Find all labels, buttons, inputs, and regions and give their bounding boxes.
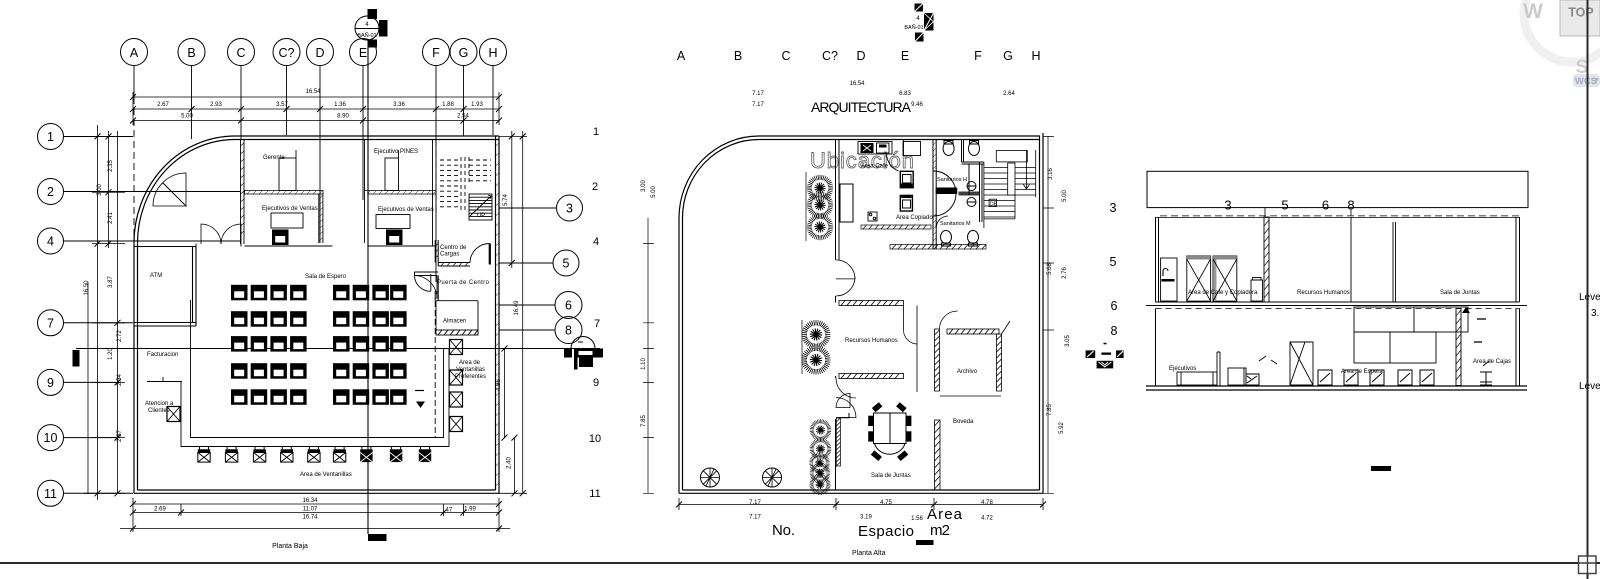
svg-text:16.74: 16.74: [302, 515, 318, 521]
svg-text:Area: Area: [927, 506, 963, 523]
svg-text:C?: C?: [279, 46, 295, 60]
svg-text:E: E: [901, 49, 909, 63]
svg-text:UP: UP: [477, 213, 485, 219]
svg-text:Ventanillas: Ventanillas: [456, 367, 485, 373]
svg-text:1.36: 1.36: [334, 102, 346, 108]
svg-text:16.50: 16.50: [84, 280, 90, 296]
svg-text:5.92: 5.92: [1059, 422, 1065, 434]
svg-text:Level: Level: [1579, 292, 1600, 303]
svg-text:Area de Ventanillas: Area de Ventanillas: [300, 472, 352, 478]
svg-text:ARQUITECTURA: ARQUITECTURA: [811, 99, 912, 115]
svg-text:7.17: 7.17: [749, 515, 761, 521]
svg-text:7.17: 7.17: [752, 102, 764, 108]
svg-text:2.67: 2.67: [157, 102, 169, 108]
svg-text:WCS: WCS: [1575, 76, 1597, 87]
svg-text:Area de Cafe y Copiadora: Area de Cafe y Copiadora: [1188, 290, 1258, 296]
svg-text:1.20: 1.20: [108, 348, 114, 360]
svg-text:Recursos Humanos: Recursos Humanos: [845, 338, 898, 344]
svg-text:3.36: 3.36: [393, 102, 405, 108]
svg-text:4.72: 4.72: [981, 516, 993, 522]
svg-text:Atencion a: Atencion a: [145, 401, 174, 407]
svg-text:C: C: [781, 49, 790, 63]
svg-text:Centro de: Centro de: [440, 245, 467, 251]
svg-text:Area Copiado: Area Copiado: [896, 215, 933, 221]
svg-text:3: 3: [566, 202, 573, 216]
svg-text:Planta Baja: Planta Baja: [272, 543, 308, 550]
svg-text:2.41: 2.41: [108, 212, 114, 224]
svg-text:Archivo: Archivo: [957, 369, 978, 375]
svg-text:4.75: 4.75: [880, 500, 892, 506]
svg-text:4.78: 4.78: [981, 500, 993, 506]
svg-text:1.93: 1.93: [471, 102, 483, 108]
svg-text:F: F: [974, 49, 982, 63]
svg-text:Espacio: Espacio: [858, 523, 914, 540]
svg-text:DB: DB: [990, 202, 998, 208]
svg-text:7.85: 7.85: [641, 415, 647, 427]
svg-text:2.93: 2.93: [210, 102, 222, 108]
svg-text:G: G: [459, 46, 469, 60]
svg-text:4: 4: [593, 236, 599, 248]
svg-text:C: C: [236, 46, 245, 60]
svg-text:ATM: ATM: [150, 273, 162, 279]
svg-text:Recursos Humanos: Recursos Humanos: [1297, 290, 1350, 296]
svg-text:Sala de Espero: Sala de Espero: [305, 274, 347, 280]
svg-text:2.35: 2.35: [108, 160, 114, 172]
svg-text:Boveda: Boveda: [953, 419, 974, 425]
svg-text:B: B: [734, 49, 742, 63]
svg-text:.47: .47: [444, 508, 453, 514]
svg-text:Sala de Juntas: Sala de Juntas: [1440, 290, 1480, 296]
svg-text:3.16: 3.16: [1048, 168, 1054, 180]
svg-text:7: 7: [47, 316, 54, 330]
svg-text:Sanitarios H: Sanitarios H: [937, 177, 967, 183]
svg-text:3.05: 3.05: [1065, 335, 1071, 347]
svg-text:11.07: 11.07: [303, 507, 318, 513]
svg-text:1.56: 1.56: [911, 516, 923, 522]
svg-text:5: 5: [563, 257, 570, 271]
svg-text:Level: Level: [1579, 381, 1600, 392]
svg-text:Ejecutivos: Ejecutivos: [1169, 366, 1196, 372]
svg-text:16.34: 16.34: [302, 498, 318, 504]
svg-text:A: A: [677, 49, 686, 63]
svg-text:5: 5: [1281, 198, 1288, 213]
svg-text:16.49: 16.49: [514, 300, 520, 316]
svg-text:Area de Cajas: Area de Cajas: [1473, 359, 1511, 365]
svg-text:3: 3: [1224, 198, 1231, 213]
svg-text:1: 1: [47, 130, 54, 144]
svg-text:Cargas: Cargas: [440, 252, 459, 258]
svg-text:2.72: 2.72: [117, 330, 123, 342]
svg-text:C?: C?: [822, 49, 838, 63]
svg-text:Sala de Juntas: Sala de Juntas: [871, 473, 911, 479]
svg-text:1: 1: [593, 126, 599, 138]
svg-text:16.54: 16.54: [305, 89, 321, 95]
svg-text:3.57: 3.57: [276, 102, 288, 108]
svg-text:D: D: [856, 49, 865, 63]
svg-text:Ejecutivos de Ventas: Ejecutivos de Ventas: [378, 207, 434, 213]
svg-text:3.87: 3.87: [108, 276, 114, 288]
svg-text:2.40: 2.40: [507, 457, 513, 469]
svg-text:5.00: 5.00: [181, 114, 193, 120]
svg-text:8.90: 8.90: [337, 114, 349, 120]
svg-text:9: 9: [593, 377, 599, 389]
svg-text:9.46: 9.46: [911, 102, 923, 108]
svg-text:Area de: Area de: [459, 360, 481, 366]
svg-text:TOP: TOP: [1568, 6, 1593, 20]
svg-text:Preferentes: Preferentes: [455, 374, 486, 380]
svg-text:10: 10: [44, 431, 58, 445]
svg-text:2.69: 2.69: [154, 507, 166, 513]
svg-text:7.17: 7.17: [749, 500, 761, 506]
svg-text:3: 3: [1110, 201, 1117, 215]
svg-text:B: B: [187, 46, 195, 60]
svg-text:5.00: 5.00: [1062, 190, 1068, 202]
svg-text:9: 9: [47, 376, 54, 390]
svg-text:10: 10: [589, 433, 601, 445]
svg-text:5: 5: [1110, 255, 1117, 269]
svg-text:8: 8: [1111, 324, 1118, 338]
svg-text:H: H: [1031, 49, 1040, 63]
svg-text:8: 8: [565, 324, 572, 338]
svg-text:2.54: 2.54: [117, 374, 123, 386]
svg-text:11: 11: [589, 488, 600, 500]
svg-text:F: F: [432, 46, 440, 60]
svg-text:8: 8: [1347, 198, 1354, 213]
svg-text:3.19: 3.19: [860, 515, 872, 521]
svg-text:Area Cafe: Area Cafe: [861, 164, 889, 170]
svg-text:Clientes: Clientes: [148, 408, 170, 414]
svg-text:16.54: 16.54: [849, 81, 865, 87]
svg-text:H: H: [488, 46, 497, 60]
svg-text:W: W: [1523, 0, 1543, 23]
svg-text:2.54: 2.54: [457, 114, 469, 120]
svg-text:7: 7: [594, 318, 600, 330]
svg-text:3.00: 3.00: [641, 180, 647, 192]
svg-text:7.17: 7.17: [752, 91, 764, 97]
svg-text:6: 6: [565, 299, 572, 313]
svg-text:6: 6: [1111, 299, 1118, 313]
svg-text:2: 2: [47, 185, 54, 199]
svg-text:Puerta de Centro: Puerta de Centro: [437, 280, 490, 286]
svg-text:G: G: [1003, 49, 1013, 63]
svg-text:Almacen: Almacen: [443, 319, 466, 325]
svg-text:A: A: [130, 46, 139, 60]
svg-text:Ejecutivo PINES: Ejecutivo PINES: [374, 149, 418, 155]
svg-text:5.00: 5.00: [651, 186, 657, 198]
svg-text:2.57: 2.57: [117, 430, 123, 442]
svg-text:BAÑ-01: BAÑ-01: [357, 32, 376, 39]
svg-text:D: D: [315, 46, 324, 60]
svg-text:5.74: 5.74: [503, 194, 509, 206]
svg-text:3.5: 3.5: [1591, 308, 1600, 319]
svg-text:BAÑ-01: BAÑ-01: [904, 24, 923, 31]
svg-text:2.64: 2.64: [1003, 91, 1015, 97]
svg-text:6.83: 6.83: [899, 91, 911, 97]
svg-text:Gerente: Gerente: [263, 155, 285, 161]
svg-text:Ejecutivos de Ventas: Ejecutivos de Ventas: [262, 206, 318, 212]
svg-text:4: 4: [47, 235, 54, 249]
svg-text:11: 11: [44, 487, 57, 501]
svg-text:Facturacion: Facturacion: [147, 352, 178, 358]
svg-text:Sanitarios M: Sanitarios M: [940, 221, 971, 227]
svg-text:6: 6: [1322, 198, 1329, 213]
svg-text:1.99: 1.99: [464, 507, 476, 513]
svg-text:m2: m2: [930, 522, 950, 539]
svg-text:E: E: [359, 46, 367, 60]
svg-text:1.88: 1.88: [442, 102, 454, 108]
svg-text:1.10: 1.10: [641, 358, 647, 370]
svg-text:2.76: 2.76: [1062, 267, 1068, 279]
svg-text:No.: No.: [772, 522, 795, 539]
svg-text:Area de Espera: Area de Espera: [1341, 369, 1383, 375]
svg-text:2: 2: [592, 181, 598, 193]
svg-text:Planta Alta: Planta Alta: [852, 550, 886, 557]
svg-text:3.00: 3.00: [97, 184, 103, 196]
